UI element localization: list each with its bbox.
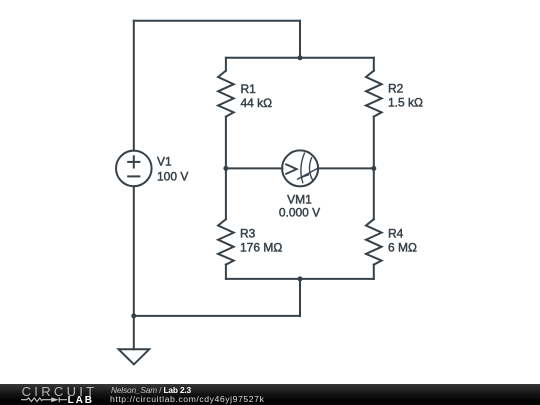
voltage source V1 [116,151,152,187]
wire middle rail right [318,167,374,169]
svg-text:6 MΩ: 6 MΩ [388,241,417,255]
svg-text:R1: R1 [241,82,257,96]
wire R1 top lead [225,58,227,71]
wire R3 bottom lead [225,265,227,279]
footer title text [111,385,191,395]
node middle-left junction [223,166,228,171]
svg-text:100 V: 100 V [157,170,188,184]
wire V1 bottom lead [133,186,135,316]
svg-text:V1: V1 [157,155,172,169]
svg-text:R3: R3 [240,227,256,241]
footer url text [110,394,264,404]
resistor R2 [366,71,382,117]
svg-text:R2: R2 [388,82,404,96]
svg-text:LAB: LAB [68,395,94,405]
resistor R4 [366,219,382,264]
wire middle rail left [226,167,283,169]
wire top horizontal [134,20,300,22]
node ground junction [131,313,136,318]
wire top rail of bridge [226,57,374,59]
resistor R3 [218,219,234,264]
wire R1 bottom lead [225,117,227,169]
wire ground lead [133,316,135,349]
resistor R1 [218,71,234,117]
wire R4 top lead [373,168,375,219]
svg-text:VM1: VM1 [287,192,312,206]
svg-text:1.5 kΩ: 1.5 kΩ [388,96,423,110]
wire top drop to bridge [299,21,301,58]
svg-text:0.000 V: 0.000 V [279,206,320,220]
wire R2 top lead [373,58,375,71]
node middle-right junction [371,166,376,171]
wire bottom rail of bridge [226,278,374,280]
node top junction [298,55,303,60]
voltmeter VM1 [282,150,318,186]
svg-text:R4: R4 [388,227,404,241]
svg-text:176 MΩ: 176 MΩ [240,241,282,255]
CircuitLab logo [0,384,110,405]
wire R2 bottom lead [373,117,375,169]
wire top-left vertical (V1 to top rail) [133,21,135,151]
node bottom junction [298,276,303,281]
ground [119,349,150,364]
wire bottom rail drop [299,279,301,316]
wire R3 top lead [225,168,227,219]
wire R4 bottom lead [373,265,375,279]
wire bottom horizontal [134,315,300,317]
footer bar [0,384,540,405]
svg-text:44 kΩ: 44 kΩ [241,96,273,110]
